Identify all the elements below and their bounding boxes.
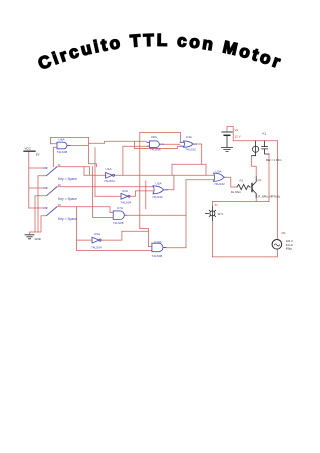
svg-text:45kg: 45kg [286, 247, 292, 251]
svg-text:U5A: U5A [156, 181, 163, 185]
svg-text:5V: 5V [36, 152, 40, 156]
svg-text:1k Ohm: 1k Ohm [231, 190, 241, 194]
svg-text:M1: M1 [282, 231, 286, 235]
svg-text:R1: R1 [240, 179, 244, 183]
wire stray mid vertical [145, 181, 147, 209]
wire switch row1 to G2 input [57, 167, 106, 176]
svg-text:74LS08: 74LS08 [152, 254, 163, 258]
svg-text:U6A: U6A [59, 137, 66, 141]
svg-text:Rdc = 1 Ohm: Rdc = 1 Ohm [266, 158, 281, 162]
wire riser into G10 top input [140, 229, 152, 247]
wire lamp top [211, 202, 213, 208]
wire riser G2 out to G6 bottom input [123, 146, 147, 175]
switch arrowheads [46, 167, 48, 169]
wire G1 feedback to G6 top input [88, 137, 146, 166]
svg-text:74LS04: 74LS04 [104, 179, 115, 183]
wire G10 output [166, 247, 186, 249]
svg-text:VCC: VCC [25, 147, 32, 151]
wire emitter node horizontal [212, 195, 269, 201]
wire G8 bottom input [186, 179, 214, 181]
svg-text:74LS32: 74LS32 [152, 195, 163, 199]
wire switch row2 to G5 top input [57, 186, 153, 188]
wire G1 box top [51, 137, 89, 143]
wire G9 output jog to G10 [101, 231, 148, 240]
svg-text:U4A: U4A [186, 135, 193, 139]
svg-text:Key = Space: Key = Space [58, 217, 77, 221]
svg-text:K1: K1 [263, 131, 267, 135]
wire coil bottom to collector [252, 156, 257, 177]
svg-text:74LS04: 74LS04 [121, 200, 132, 204]
wire G10 bottom input long [77, 240, 152, 251]
wire battery hook [227, 127, 277, 141]
wire VCC bus [28, 152, 30, 208]
and-gate U6A body [57, 142, 70, 149]
switch J1 [43, 167, 56, 176]
lamp X1 [210, 211, 215, 216]
svg-text:12 V: 12 V [218, 212, 224, 216]
wire G8 output to R1 to base [225, 177, 252, 187]
svg-text:U10A: U10A [154, 240, 163, 244]
svg-text:X1: X1 [215, 203, 219, 207]
blue labels [57, 135, 225, 258]
svg-text:Key = Space: Key = Space [58, 177, 77, 181]
or-gate U4A body [180, 141, 197, 147]
and-gate U8A body [147, 141, 164, 148]
wire motor feed vertical [276, 141, 278, 240]
wire vertical net at x=186 [185, 180, 187, 248]
svg-text:GND: GND [35, 237, 41, 241]
wire G1 input stubs [51, 144, 58, 167]
svg-text:U9A: U9A [94, 232, 101, 236]
svg-text:12 V: 12 V [235, 135, 241, 139]
wire tap to G3 input [95, 195, 121, 197]
svg-text:J2: J2 [58, 183, 62, 187]
blue components [43, 141, 225, 252]
svg-text:34 Hz: 34 Hz [286, 243, 294, 247]
svg-text:124 V: 124 V [286, 239, 293, 243]
not-gate U2A body [121, 193, 128, 199]
vcc symbol [24, 150, 35, 152]
relay contact [262, 141, 269, 154]
svg-text:74LS08: 74LS08 [113, 221, 124, 225]
wire long vertical net G7 top / G10 top [140, 132, 181, 228]
not-gate U1A body [106, 173, 113, 179]
svg-text:74LS04: 74LS04 [91, 245, 102, 249]
svg-text:U3A: U3A [216, 169, 223, 173]
battery V1 [222, 131, 232, 133]
black/maroon tiny labels [25, 128, 294, 251]
or-gate U5A body [153, 186, 168, 194]
svg-text:U8A: U8A [151, 135, 158, 139]
svg-text:Key = Space: Key = Space [58, 197, 77, 201]
wire G2 output long to G8 top input [115, 174, 214, 176]
svg-text:74LS32: 74LS32 [185, 148, 196, 152]
svg-text:J3: J3 [58, 203, 62, 207]
wire switch pole rows [29, 168, 43, 208]
wire G3 output to G5 bottom input [130, 191, 153, 196]
wire row3 down to G9 input [77, 207, 92, 240]
wire G4 output [126, 214, 186, 216]
wire lamp bottom loop to motor [212, 220, 277, 257]
wire tap to G4 bottom input [93, 148, 114, 218]
svg-text:U1A: U1A [106, 167, 113, 171]
resistor R1 [237, 184, 250, 189]
switch J3 [43, 207, 56, 216]
svg-text:Q1: Q1 [258, 178, 262, 182]
and-gate U10A body [152, 243, 166, 252]
ground left [25, 235, 34, 239]
wire G6 output to G7 [164, 143, 180, 145]
not-gate U9A body [92, 237, 99, 243]
motor M1 [272, 240, 282, 250]
wire contact bottom down [268, 154, 270, 202]
svg-text:74LS32: 74LS32 [214, 182, 225, 186]
wire link row1-row2 [83, 167, 85, 176]
ground battery [222, 147, 233, 151]
wire G7 output down [197, 144, 202, 164]
wire G5 output riser to G8 top [168, 164, 207, 190]
wire switch row3 to G4 top input [57, 207, 114, 213]
wire switch throws to ground bus [30, 176, 47, 235]
and-gate U7A body [113, 211, 126, 220]
wire G1 output zigzag to G7 bottom input [67, 141, 180, 148]
svg-text:V1: V1 [235, 128, 239, 132]
svg-text:U7A: U7A [117, 206, 124, 210]
or-gate U3A body [214, 173, 226, 181]
svg-text:J1: J1 [58, 163, 62, 167]
relay coil K1 [255, 141, 257, 146]
svg-text:Circuito TTL con Motor: Circuito TTL con Motor [35, 31, 283, 74]
transistor Q1 [251, 183, 253, 191]
switch J2 [43, 187, 56, 196]
svg-text:74LS08: 74LS08 [150, 147, 161, 151]
svg-text:74LS08: 74LS08 [57, 150, 68, 154]
svg-text:U2A: U2A [122, 189, 129, 193]
black symbols [24, 132, 282, 249]
svg-text:BJT_NPN_VIRTUAL: BJT_NPN_VIRTUAL [256, 195, 281, 199]
